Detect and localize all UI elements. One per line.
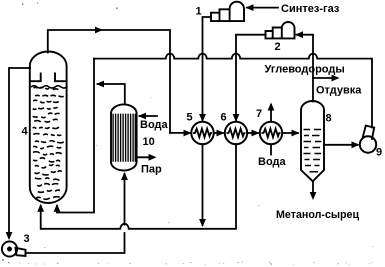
svg-text:2: 2 xyxy=(275,41,281,53)
wire separator-8 overhead to compressor-2 xyxy=(297,35,314,102)
svg-text:Синтез-газ: Синтез-газ xyxy=(281,3,340,15)
svg-text:10: 10 xyxy=(143,136,155,148)
reactor 4 catalyst bed top (wavy level) xyxy=(31,86,67,88)
arrow syngas into compressor 1 xyxy=(246,4,254,11)
wire HX7 to separator 8 xyxy=(283,132,299,134)
svg-text:Отдувка: Отдувка xyxy=(316,85,362,97)
wire raw methanol out xyxy=(312,181,314,197)
arrow down into pump 3 xyxy=(6,232,13,240)
arrow raw methanol down xyxy=(310,192,317,200)
svg-text:Пар: Пар xyxy=(141,164,162,176)
arrow up into exchanger 10 xyxy=(121,172,128,180)
wire steam from exchanger-10 xyxy=(137,156,152,158)
svg-text:Вода: Вода xyxy=(258,156,287,168)
circulator (fan) 9 xyxy=(360,136,376,152)
reactor 4 catalyst bed (dashes) xyxy=(33,87,64,199)
wire HX5 to HX6 xyxy=(214,132,223,134)
wire purge (Отдувка) xyxy=(313,77,335,79)
svg-text:Метанол-сырец: Метанол-сырец xyxy=(276,209,359,221)
separator 8 body xyxy=(301,101,324,181)
svg-text:8: 8 xyxy=(326,113,332,125)
arrow HX5 to HX6 xyxy=(217,130,225,137)
wire reactor side draw to pump-3 xyxy=(9,68,30,238)
wire separator-8 to circulator-9 xyxy=(324,144,358,146)
wire syngas feed xyxy=(247,7,278,9)
wire HX7 vapor out xyxy=(270,105,272,122)
arrow water into 10 xyxy=(138,113,146,120)
svg-text:1: 1 xyxy=(196,6,202,18)
arrow exchanger-10 outlet into downcomer xyxy=(96,81,104,88)
compressor 1 (multistage) xyxy=(211,2,244,21)
svg-text:9: 9 xyxy=(376,147,382,159)
wire compressor-2 discharge to HX6 xyxy=(236,35,266,121)
arrow into reactor bottom left xyxy=(37,204,44,212)
svg-text:7: 7 xyxy=(256,108,262,120)
arrow steam out of 10 xyxy=(149,154,157,161)
svg-text:4: 4 xyxy=(22,126,29,138)
scan noise specks xyxy=(2,3,118,264)
arrow into reactor bottom right xyxy=(54,204,61,212)
wire HX7 water in xyxy=(270,145,272,155)
steam generator 10 body xyxy=(111,104,137,170)
arrow HX7 to separator 8 xyxy=(292,130,300,137)
reactor 4 internals (inlet distributor) xyxy=(31,73,66,82)
svg-text:6: 6 xyxy=(221,112,227,124)
wire exchanger-10 outlet to downcomer junction xyxy=(98,84,125,104)
svg-text:Вода: Вода xyxy=(140,119,169,131)
wire HX6 outlet header to reactor bottom xyxy=(41,144,236,229)
pump 3 xyxy=(2,241,17,256)
svg-text:Углеводороды: Углеводороды xyxy=(265,64,345,76)
heat exchanger 7 xyxy=(260,122,282,144)
arrow into HX5 left xyxy=(184,130,192,137)
arrow purge Отдувка xyxy=(332,75,340,82)
arrow separator to fan 9 xyxy=(352,141,360,148)
wire water to exchanger-10 xyxy=(140,115,158,117)
arrow on top line xyxy=(95,27,103,34)
wire reactor-4 top outlet to heat exchangers xyxy=(48,30,170,133)
wire compressor-1 discharge to HX5 xyxy=(203,17,212,121)
svg-text:3: 3 xyxy=(24,233,30,245)
arrow HX6 to HX7 xyxy=(252,130,260,137)
wire HX5 outlet down xyxy=(202,144,204,225)
wire recycle gas line (Углеводороды) xyxy=(94,54,372,128)
wire pump-3 discharge to exchanger-10 xyxy=(26,174,125,253)
wire recycle downcomer to reactor bottom xyxy=(57,59,94,213)
compressor 2 (multistage) xyxy=(266,22,295,38)
wire HX6 to HX7 xyxy=(247,132,258,134)
separator 8 liquid level dashes xyxy=(304,130,322,172)
arrow into compressor 2 xyxy=(295,31,303,38)
heat exchanger 5 xyxy=(191,122,213,144)
arrow into HX5 top xyxy=(199,114,206,122)
heat exchanger 6 xyxy=(225,122,247,144)
reactor column 4 xyxy=(30,51,67,203)
arrow HX7 vent up xyxy=(268,103,275,111)
arrow into HX6 top xyxy=(233,114,240,122)
steam generator 10 tubes xyxy=(113,114,135,162)
arrow HX5 bottom into header xyxy=(199,219,206,227)
svg-text:5: 5 xyxy=(187,112,193,124)
